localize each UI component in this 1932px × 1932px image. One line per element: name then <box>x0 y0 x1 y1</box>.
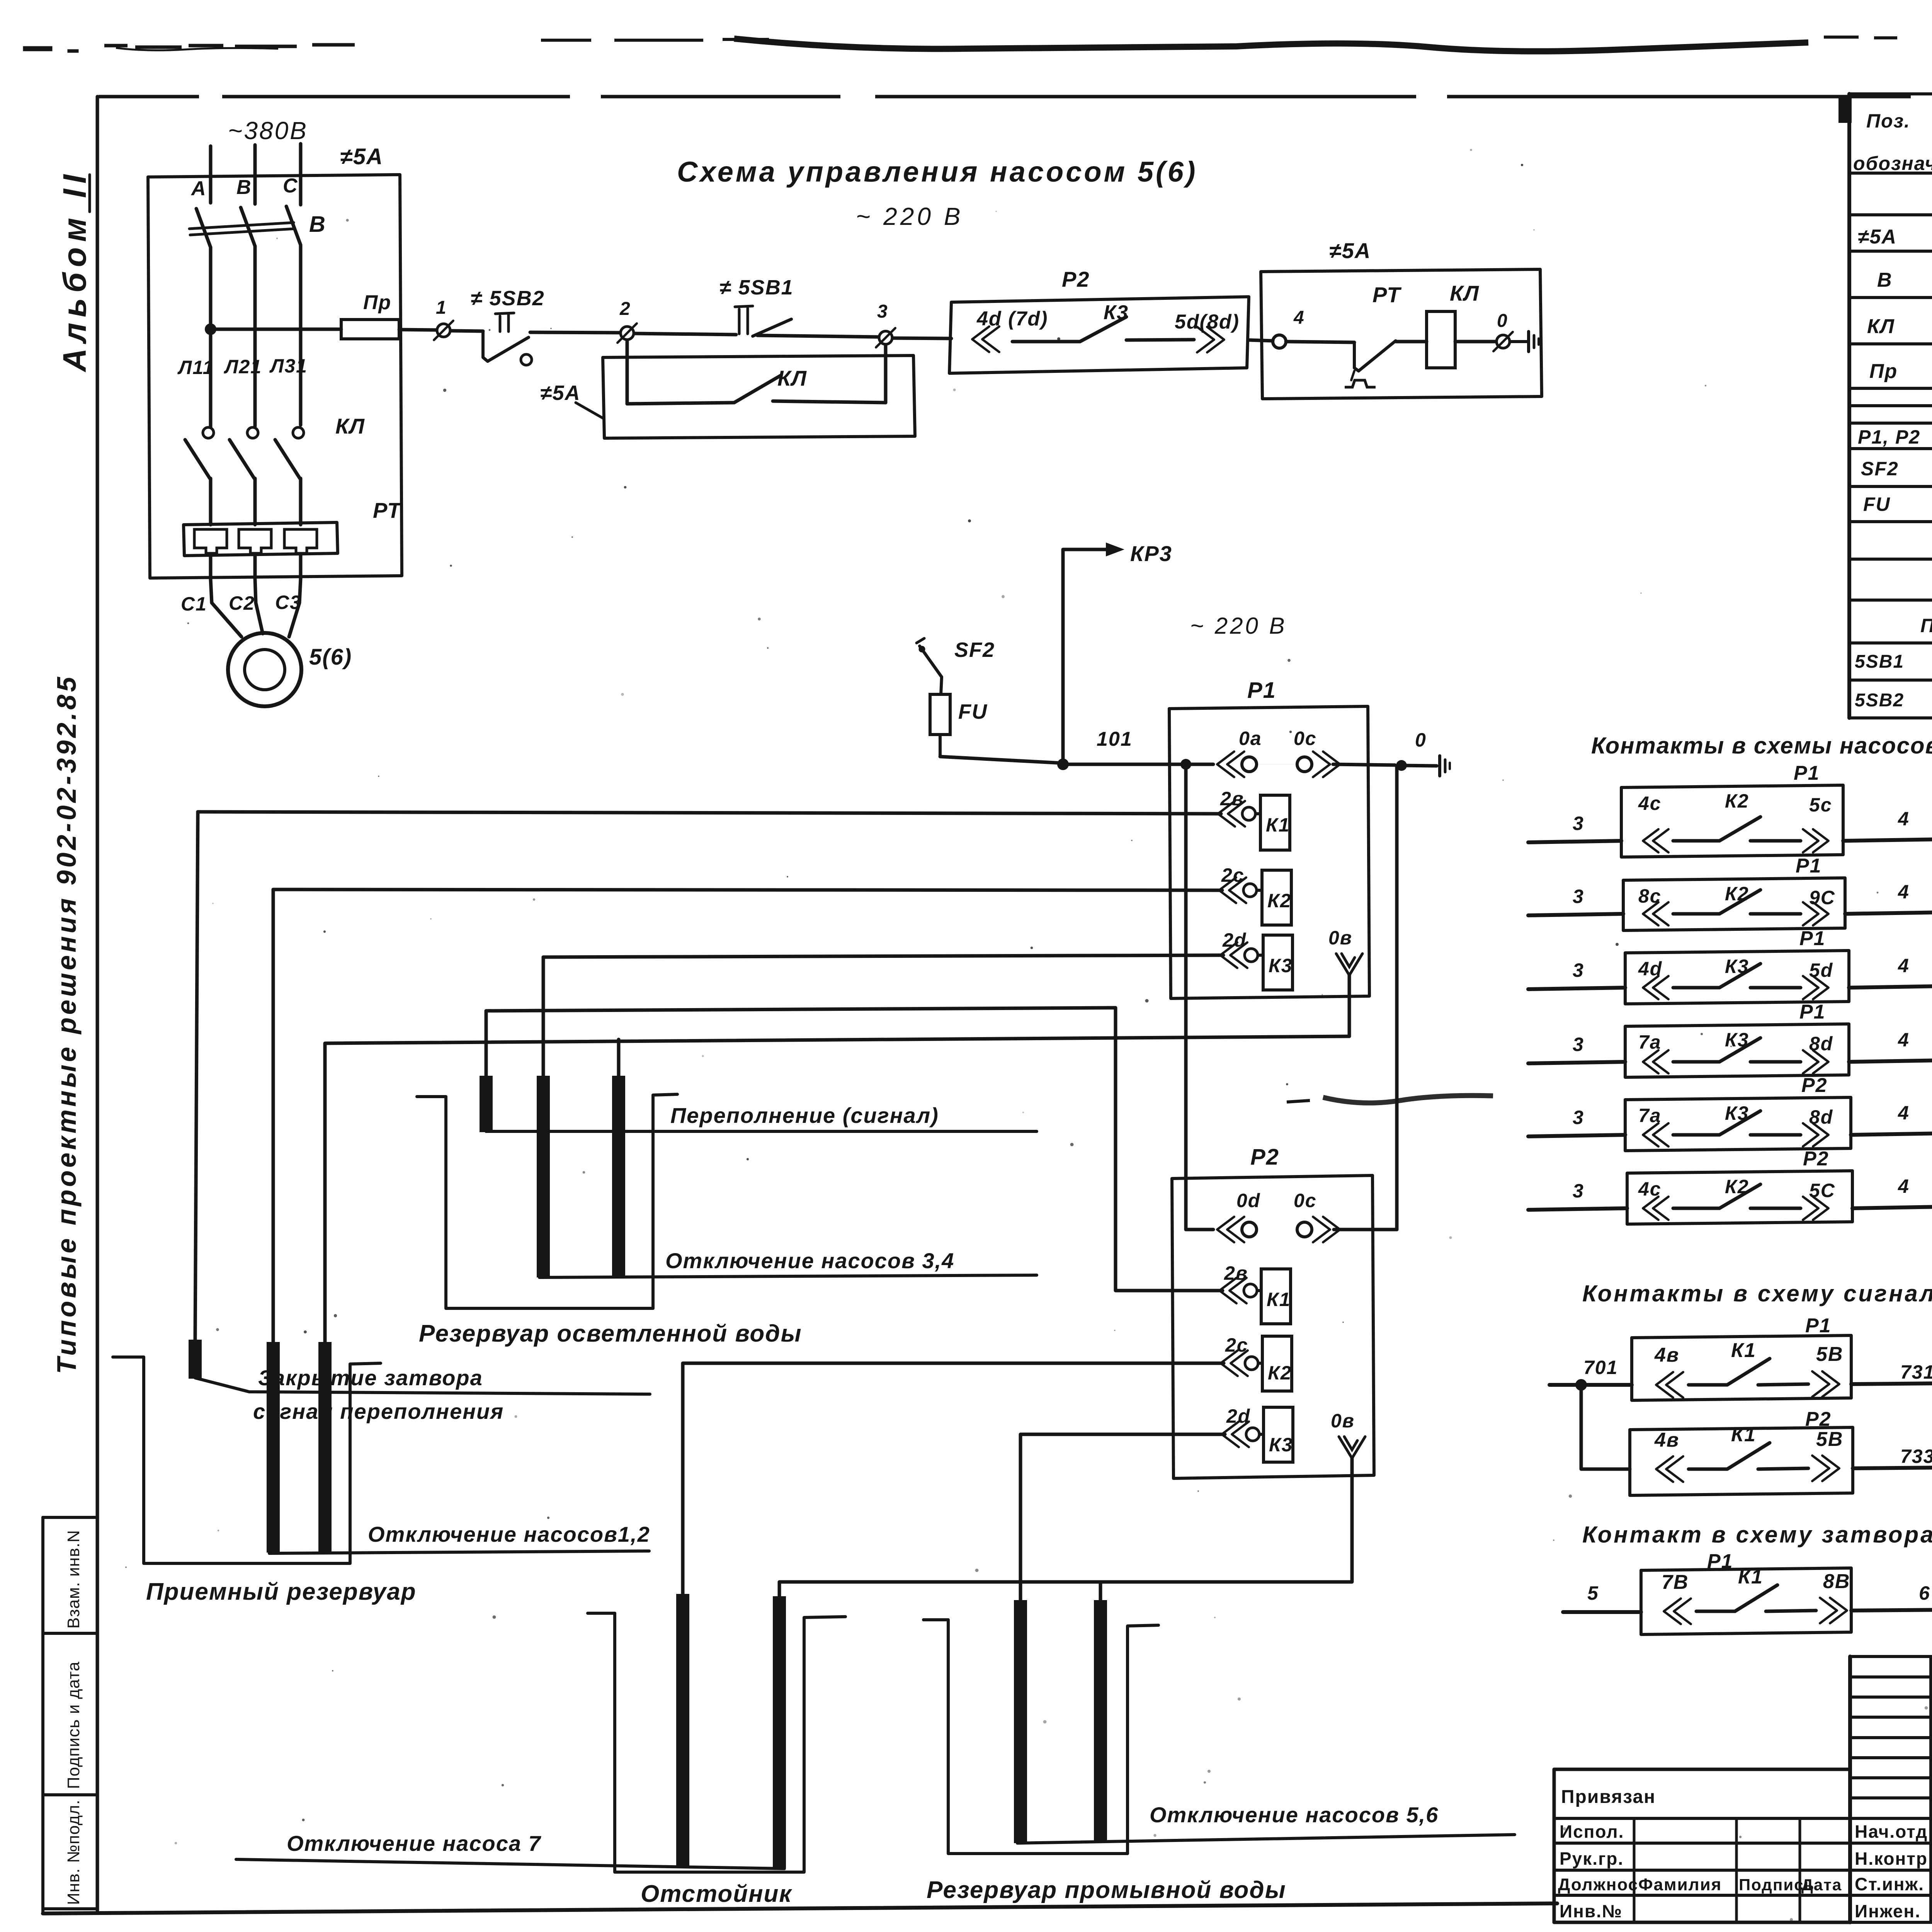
svg-text:К1: К1 <box>1266 814 1290 836</box>
svg-text:8с: 8с <box>1638 885 1662 907</box>
node 4 <box>1273 335 1286 348</box>
tank otstoynik <box>588 1613 845 1872</box>
svg-text:2с: 2с <box>1225 1334 1248 1356</box>
electrode otkl nasosov 1-2 a <box>267 1342 280 1553</box>
junction promyv electrode 2 <box>1099 1582 1102 1600</box>
svg-text:КР3: КР3 <box>1130 541 1172 566</box>
svg-text:Отстойник: Отстойник <box>641 1881 792 1907</box>
svg-text:Контакты в схемы насосов: Контакты в схемы насосов <box>1591 733 1932 759</box>
junction dot P1 left <box>1180 759 1191 770</box>
P1 internal left rail <box>1184 764 1188 1230</box>
svg-text:Р1: Р1 <box>1805 1315 1832 1337</box>
P2 contact K3 <box>1222 1422 1239 1447</box>
svg-text:Р1: Р1 <box>1794 762 1820 784</box>
wire node0 to ground <box>1510 340 1527 343</box>
svg-text:К1: К1 <box>1731 1423 1756 1446</box>
svg-text:Отключение насосов 5,6: Отключение насосов 5,6 <box>1150 1803 1439 1827</box>
KL latch blade <box>734 376 781 403</box>
svg-text:Отключение насосов1,2: Отключение насосов1,2 <box>368 1522 650 1546</box>
svg-text:5В: 5В <box>1816 1343 1843 1366</box>
svg-text:Инв.№: Инв.№ <box>1560 1901 1622 1921</box>
P1 contact K2 <box>1219 878 1236 903</box>
svg-text:Инв. №подл.: Инв. №подл. <box>64 1799 83 1905</box>
svg-text:2d: 2d <box>1226 1405 1250 1427</box>
svg-text:4: 4 <box>1898 808 1910 830</box>
signal contact row P2 <box>1630 1408 1932 1495</box>
svg-text:FU: FU <box>1863 493 1891 515</box>
svg-text:3: 3 <box>1573 1034 1584 1055</box>
P1 contact K1 <box>1218 801 1235 827</box>
wire perepolnenie label line <box>486 1130 1037 1133</box>
svg-text:Пр: Пр <box>363 291 391 314</box>
electrode bottom line osv <box>539 1275 1037 1277</box>
svg-text:Пост управления ПКУ15-19.121-: Пост управления ПКУ15-19.121-54У2 ТУ16-5… <box>1920 615 1932 636</box>
svg-text:В: В <box>309 212 326 237</box>
contactor coil KL <box>1427 311 1455 368</box>
thermal relay RT heaters <box>184 522 338 556</box>
svg-text:С2: С2 <box>229 592 255 614</box>
svg-text:К1: К1 <box>1267 1289 1291 1310</box>
junction common electrode osv <box>617 1039 621 1076</box>
wire RT to KL coil <box>1396 340 1427 344</box>
relay P2 box <box>1172 1175 1374 1478</box>
junction dot bus tap <box>205 323 216 335</box>
svg-text:≠ 5SB2: ≠ 5SB2 <box>471 287 545 310</box>
svg-text:Л31: Л31 <box>269 355 308 377</box>
P2 contact arrows left <box>972 327 989 352</box>
svg-text:Контакты в схему сигнализаци: Контакты в схему сигнализации <box>1582 1281 1932 1306</box>
svg-text:К2: К2 <box>1725 1176 1749 1197</box>
fuse FU <box>930 694 950 735</box>
svg-text:4: 4 <box>1898 1029 1910 1051</box>
scan artifact stroke <box>1323 1095 1493 1103</box>
svg-text:К2: К2 <box>1725 790 1749 812</box>
contact row Р2 К2 <box>1528 1148 1932 1224</box>
tank priemny rezervuar <box>113 1357 381 1563</box>
svg-text:сигнал переполнения: сигнал переполнения <box>253 1399 504 1423</box>
svg-text:Отключение насосов 3,4: Отключение насосов 3,4 <box>665 1248 954 1273</box>
svg-text:2с: 2с <box>1221 864 1245 886</box>
wire P2 K1 from overflow electrode <box>486 1008 1223 1291</box>
svg-text:8В: 8В <box>1823 1570 1850 1593</box>
svg-text:Нач.отд: Нач.отд <box>1855 1821 1928 1842</box>
svg-text:≠5А: ≠5А <box>1329 238 1371 263</box>
svg-text:4d (7d): 4d (7d) <box>976 308 1048 330</box>
P2 contact K2 <box>1221 1350 1238 1376</box>
svg-text:Р1, Р2: Р1, Р2 <box>1858 426 1920 448</box>
phase C mid <box>299 245 303 425</box>
svg-text:Испол.: Испол. <box>1560 1821 1624 1842</box>
node 3 <box>879 331 892 344</box>
svg-text:В: В <box>1877 269 1893 291</box>
phase C lead-in <box>299 144 303 205</box>
svg-text:SF2: SF2 <box>954 638 995 662</box>
wire P1 K3 to electrode <box>543 955 1223 957</box>
wire node3 to P2 box <box>893 338 951 338</box>
phase A mid <box>209 247 213 427</box>
relay P2 level contact box <box>949 297 1249 373</box>
svg-text:К1: К1 <box>1731 1339 1756 1362</box>
contact row Р1 К3 <box>1528 927 1932 1004</box>
scan artifact smudge top <box>23 31 1932 696</box>
svg-text:Р2: Р2 <box>1801 1074 1828 1097</box>
RT-KL box <box>1261 269 1542 399</box>
contact row Р1 К2 <box>1528 855 1932 930</box>
wire common electrodes to P1 0v <box>325 1036 1349 1342</box>
zatvor contact row P1 <box>1563 1550 1932 1634</box>
svg-text:Р1: Р1 <box>1247 678 1276 703</box>
junction dot 101 branch <box>1057 759 1069 770</box>
wire fuse to node1 <box>399 330 437 330</box>
svg-text:≠5А: ≠5А <box>540 381 581 405</box>
svg-text:РТ: РТ <box>1372 282 1402 307</box>
svg-text:С1: С1 <box>181 593 207 615</box>
P2 contact blade <box>1012 340 1080 344</box>
wire node2 to SSB1 <box>634 333 736 335</box>
svg-text:5В: 5В <box>1816 1428 1843 1451</box>
svg-text:733: 733 <box>1900 1446 1932 1467</box>
svg-text:Дата: Дата <box>1801 1876 1842 1894</box>
svg-text:Ст.инж.: Ст.инж. <box>1855 1874 1924 1894</box>
svg-text:КЛ: КЛ <box>1450 281 1480 305</box>
svg-text:Р1: Р1 <box>1799 927 1826 950</box>
svg-text:3: 3 <box>1573 1107 1584 1128</box>
svg-text:Подпись и дата: Подпись и дата <box>64 1662 83 1789</box>
svg-text:3: 3 <box>1573 1180 1584 1202</box>
svg-text:5SB1: 5SB1 <box>1855 651 1904 672</box>
breaker SF2 <box>920 646 942 677</box>
svg-text:Л11: Л11 <box>177 357 214 378</box>
wire P2box to node4 <box>1249 340 1273 341</box>
P1 contact K3 <box>1220 942 1237 968</box>
fuse Pr <box>341 320 399 339</box>
junction dot 701 <box>1575 1379 1587 1391</box>
svg-text:К3: К3 <box>1725 956 1749 977</box>
electrode common priemny <box>318 1342 332 1553</box>
svg-text:К3: К3 <box>1725 1102 1749 1124</box>
electrode bottom line otstoynik <box>236 1859 784 1869</box>
svg-text:КЛ: КЛ <box>777 366 807 390</box>
ground 101 <box>1438 756 1441 776</box>
P2 0d 0c line <box>1186 1228 1213 1231</box>
svg-text:0с: 0с <box>1294 1190 1317 1211</box>
svg-text:4: 4 <box>1898 1175 1910 1197</box>
junction dot zero line <box>1396 760 1407 771</box>
svg-text:Резервуар осветленной воды: Резервуар осветленной воды <box>419 1320 802 1347</box>
svg-text:5SB2: 5SB2 <box>1855 690 1904 711</box>
svg-text:С3: С3 <box>275 592 301 613</box>
wire node1 to SSB2 <box>451 331 483 331</box>
svg-text:≠ 5SB1: ≠ 5SB1 <box>719 276 794 299</box>
svg-text:Должнос: Должнос <box>1558 1875 1638 1894</box>
svg-text:0в: 0в <box>1331 1410 1355 1432</box>
phase A out <box>209 556 213 579</box>
circuit breaker V blades <box>196 209 211 247</box>
svg-text:SF2: SF2 <box>1861 458 1899 480</box>
electrode perepolnenie <box>480 1076 493 1132</box>
svg-text:Отключение насоса 7: Отключение насоса 7 <box>287 1831 542 1855</box>
svg-text:К3: К3 <box>1725 1029 1749 1051</box>
svg-text:3: 3 <box>877 301 888 322</box>
wire P2 K3 from promyv <box>1020 1434 1225 1600</box>
electrode otkl nasosa 7 <box>676 1594 689 1868</box>
svg-text:Закрытие затвора: Закрытие затвора <box>258 1366 483 1390</box>
svg-text:РТ: РТ <box>373 498 402 522</box>
svg-text:4с: 4с <box>1638 1178 1662 1200</box>
phase C out <box>299 556 303 579</box>
contactor KL main contacts <box>203 427 214 438</box>
phase B lead-in <box>253 145 257 204</box>
contact row Р1 К3 <box>1528 1001 1932 1077</box>
wire P2 K2 from otstoynik <box>683 1363 1224 1594</box>
signal contact row P1 <box>1549 1315 1932 1400</box>
wire P1 K1 to electrode <box>198 812 1221 814</box>
button 5SB1 <box>738 309 741 334</box>
KL latch wires <box>626 340 629 404</box>
wire coil to node0 <box>1455 340 1496 344</box>
svg-text:4в: 4в <box>1654 1429 1679 1451</box>
tank rezervuar osvetlennoy vody <box>417 1094 677 1308</box>
relay P1 box <box>1169 706 1369 998</box>
node 1 <box>437 324 450 337</box>
svg-text:Р2: Р2 <box>1062 267 1090 291</box>
stamp table left margin <box>43 1517 97 1912</box>
svg-text:К2: К2 <box>1725 883 1749 905</box>
svg-text:0с: 0с <box>1294 728 1317 749</box>
svg-text:4с: 4с <box>1638 793 1662 814</box>
electrode otkl nasosov 5-6 <box>1014 1600 1027 1843</box>
svg-text:обознач.: обознач. <box>1853 153 1932 174</box>
svg-text:701: 701 <box>1583 1357 1618 1378</box>
svg-text:5(6): 5(6) <box>309 645 352 670</box>
svg-text:Р1: Р1 <box>1796 855 1822 877</box>
phase B out <box>253 556 257 579</box>
svg-text:5С: 5С <box>1809 1180 1835 1201</box>
svg-text:Инжен.: Инжен. <box>1855 1901 1921 1921</box>
P2 contact wire right <box>1126 340 1194 340</box>
P2 0v outlet <box>1339 1437 1365 1458</box>
svg-text:В: В <box>236 176 252 199</box>
svg-text:К2: К2 <box>1268 1362 1292 1384</box>
electrode zakrytie zatvora <box>189 1340 202 1379</box>
motor 5(6) <box>228 633 301 706</box>
electrode otkl 3-4 <box>537 1076 550 1277</box>
svg-text:4: 4 <box>1898 881 1910 903</box>
svg-text:0в: 0в <box>1328 927 1352 949</box>
svg-text:2в: 2в <box>1224 1262 1248 1284</box>
svg-text:Переполнение (сигнал): Переполнение (сигнал) <box>670 1103 939 1128</box>
svg-text:Альбом II: Альбом II <box>56 169 93 372</box>
svg-text:4: 4 <box>1898 955 1910 976</box>
P2 contact K1 <box>1219 1278 1236 1303</box>
electrode bottom line promyv <box>1017 1835 1515 1843</box>
svg-text:5d(8d): 5d(8d) <box>1175 311 1240 333</box>
wire 701 branch <box>1581 1385 1630 1469</box>
wire electrode label line <box>195 1378 650 1394</box>
node 0 <box>1497 335 1510 348</box>
wire P2 0v to electrodes <box>779 1458 1352 1596</box>
parts table grid <box>1838 94 1932 718</box>
left attached table privyazan <box>1554 1769 1850 1922</box>
svg-text:0: 0 <box>1415 729 1427 751</box>
tank rezervuar promyvnoy vody <box>923 1620 1158 1854</box>
wire node4 to RT <box>1286 342 1354 342</box>
wire P1 K2 to electrode <box>273 889 1222 890</box>
svg-text:Резервуар промывной воды: Резервуар промывной воды <box>927 1877 1286 1903</box>
svg-text:К3: К3 <box>1104 301 1129 324</box>
svg-text:5d: 5d <box>1809 959 1833 981</box>
svg-text:4d: 4d <box>1638 958 1662 980</box>
contact row Р2 К3 <box>1528 1074 1932 1151</box>
svg-text:3: 3 <box>1573 959 1584 981</box>
phase B mid <box>253 246 257 426</box>
svg-text:К1: К1 <box>1738 1566 1763 1588</box>
wire SSB1 to node3 <box>757 335 879 337</box>
svg-text:FU: FU <box>958 700 988 723</box>
svg-text:Л21: Л21 <box>224 356 262 378</box>
svg-text:5: 5 <box>1587 1582 1599 1604</box>
svg-text:4: 4 <box>1293 308 1305 328</box>
P1 0v outlet <box>1336 954 1362 975</box>
svg-text:С: С <box>283 175 298 197</box>
KL latch contact box <box>603 355 915 438</box>
svg-text:≠5А: ≠5А <box>1858 226 1897 248</box>
node 2 <box>621 327 634 340</box>
svg-text:Поз.: Поз. <box>1866 110 1910 132</box>
svg-text:2d: 2d <box>1222 929 1247 951</box>
wire to ground right <box>1401 765 1437 766</box>
svg-text:3: 3 <box>1573 813 1584 834</box>
electrode common osv <box>612 1076 625 1277</box>
P2 contact arrows right <box>1197 327 1214 352</box>
svg-text:7а: 7а <box>1638 1031 1662 1053</box>
electrode bottom line priemny <box>269 1551 649 1553</box>
wire bus to fuse <box>216 328 341 331</box>
svg-text:Взам. инв.N: Взам. инв.N <box>64 1530 83 1629</box>
svg-text:К2: К2 <box>1267 890 1292 912</box>
electrode common otstoynik <box>773 1596 786 1868</box>
svg-text:8d: 8d <box>1809 1033 1833 1054</box>
svg-text:Рук.гр.: Рук.гр. <box>1560 1849 1624 1869</box>
svg-text:К3: К3 <box>1269 955 1293 976</box>
svg-text:А: А <box>190 177 207 200</box>
svg-text:Типовые проектные решения 9: Типовые проектные решения 902-02-392.85 <box>51 674 82 1374</box>
electrode common promyv <box>1094 1600 1107 1843</box>
wire zero rail to P2 <box>1395 766 1399 1230</box>
svg-text:4: 4 <box>1898 1102 1910 1124</box>
svg-text:1: 1 <box>436 298 447 318</box>
svg-text:КЛ: КЛ <box>335 414 365 438</box>
svg-text:КЛ: КЛ <box>1867 315 1895 338</box>
button 5SB2 <box>483 331 488 361</box>
thermal contact RT <box>1354 342 1359 371</box>
wire KR3 branch <box>1063 549 1106 764</box>
svg-text:0а: 0а <box>1239 728 1262 749</box>
svg-text:0d: 0d <box>1236 1190 1260 1211</box>
wire 101 line <box>940 757 1063 763</box>
svg-text:Р1: Р1 <box>1799 1001 1826 1023</box>
svg-text:7В: 7В <box>1662 1571 1689 1594</box>
svg-text:~ 220 В: ~ 220 В <box>1190 613 1287 639</box>
svg-text:≠5А: ≠5А <box>340 144 383 169</box>
svg-text:731: 731 <box>1900 1361 1932 1383</box>
P1 0a 0c line <box>1217 752 1234 777</box>
wire P1 0v down <box>1348 975 1351 1036</box>
svg-text:2: 2 <box>619 299 631 319</box>
svg-text:Приемный резервуар: Приемный резервуар <box>146 1578 417 1605</box>
svg-text:Привязан: Привязан <box>1561 1787 1656 1807</box>
svg-text:~380В: ~380В <box>228 117 308 145</box>
svg-text:Схема управления насосом 5(6: Схема управления насосом 5(6) <box>677 156 1198 188</box>
phase A lead-in <box>209 146 213 203</box>
svg-text:К3: К3 <box>1269 1434 1293 1456</box>
svg-text:Пр: Пр <box>1869 360 1898 383</box>
title block grid <box>1850 1656 1932 1922</box>
svg-text:6: 6 <box>1919 1582 1930 1604</box>
ground control <box>1527 332 1530 352</box>
svg-text:8d: 8d <box>1809 1106 1833 1128</box>
svg-text:7а: 7а <box>1638 1105 1662 1126</box>
svg-text:Р2: Р2 <box>1250 1145 1279 1170</box>
svg-text:9С: 9С <box>1809 887 1835 908</box>
svg-text:3: 3 <box>1573 886 1584 907</box>
svg-text:Н.контр: Н.контр <box>1855 1849 1928 1869</box>
svg-text:2в: 2в <box>1220 788 1244 810</box>
enclosure box power section <box>148 175 402 578</box>
svg-text:~ 220 В: ~ 220 В <box>856 202 963 230</box>
svg-text:Контакт в схему затвора 8: Контакт в схему затвора 8 <box>1582 1522 1932 1548</box>
svg-text:101: 101 <box>1097 728 1133 750</box>
svg-text:0: 0 <box>1497 311 1508 331</box>
staff rows <box>1855 1821 1932 1921</box>
svg-text:4в: 4в <box>1654 1344 1679 1366</box>
contact row Р1 К2 <box>1528 762 1932 857</box>
wire SSB2 to node2 <box>530 332 620 333</box>
svg-text:Р2: Р2 <box>1803 1148 1829 1170</box>
svg-text:5с: 5с <box>1809 794 1832 816</box>
svg-text:Фамилия: Фамилия <box>1638 1875 1722 1894</box>
